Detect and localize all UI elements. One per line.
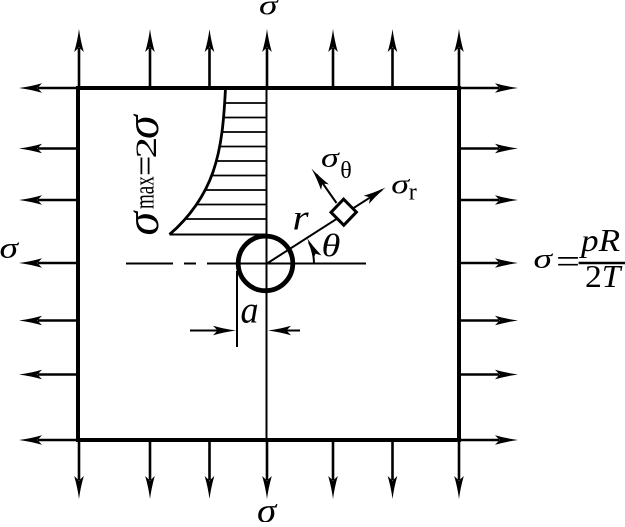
svg-text:θ: θ: [322, 228, 341, 263]
svg-text:σ: σ: [391, 168, 410, 199]
svg-text:σ: σ: [257, 491, 278, 522]
svg-text:max: max: [130, 176, 160, 209]
svg-text:r: r: [293, 198, 310, 238]
svg-text:σ: σ: [116, 113, 169, 139]
svg-text:a: a: [241, 290, 259, 332]
svg-text:=: =: [556, 243, 580, 280]
svg-text:σ: σ: [116, 210, 169, 236]
svg-text:σ: σ: [259, 0, 279, 21]
svg-text:σ: σ: [534, 244, 554, 274]
svg-text:2T: 2T: [585, 260, 623, 295]
svg-text:σ: σ: [321, 141, 340, 172]
svg-text:2: 2: [130, 137, 163, 159]
svg-text:θ: θ: [340, 158, 352, 184]
svg-text:σ: σ: [0, 232, 19, 265]
svg-text:pR: pR: [579, 223, 620, 258]
svg-text:r: r: [409, 179, 417, 205]
